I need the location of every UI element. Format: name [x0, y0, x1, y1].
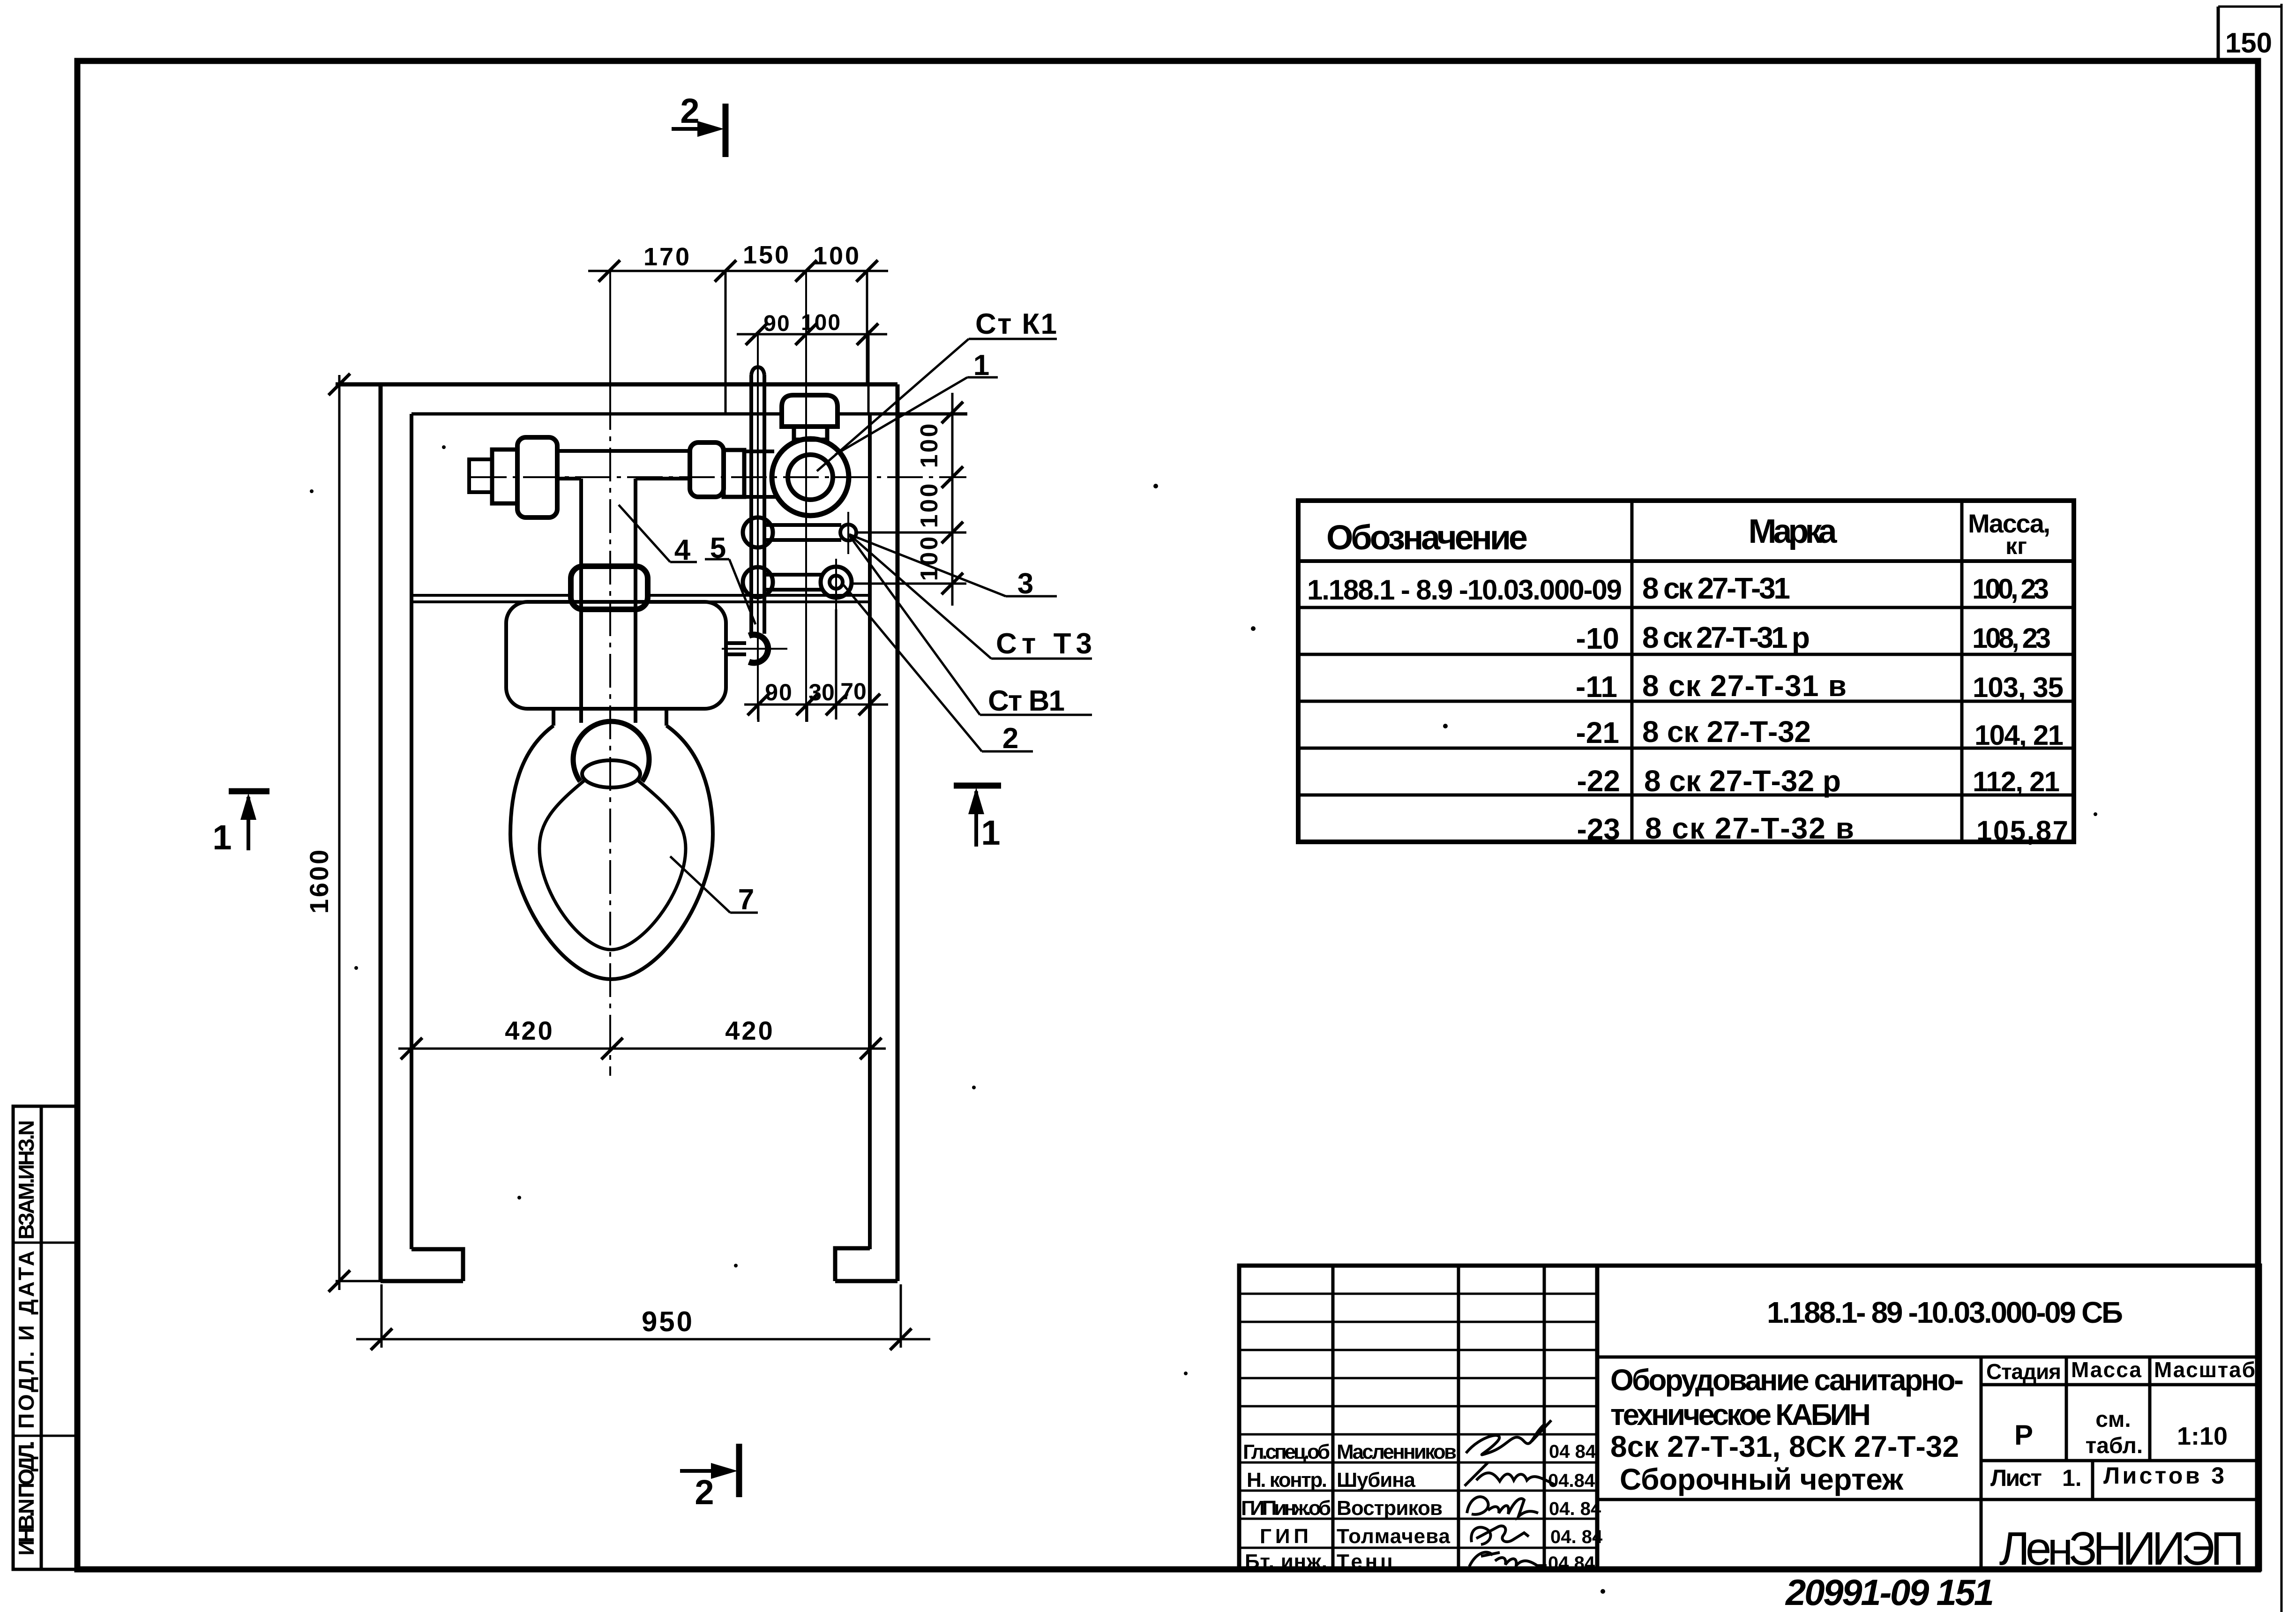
svg-text:8 ск 27-Т-31 в: 8 ск 27-Т-31 в: [1642, 669, 1848, 703]
svg-text:Обозначение: Обозначение: [1326, 518, 1528, 557]
left margin strip table: [13, 1106, 77, 1569]
svg-text:8ск 27-Т-31, 8СК 27-Т-32: 8ск 27-Т-31, 8СК 27-Т-32: [1610, 1430, 1959, 1463]
svg-text:70: 70: [840, 678, 867, 705]
svg-text:90: 90: [765, 679, 793, 705]
svg-text:Толмачева: Толмачева: [1337, 1525, 1451, 1548]
pipe coupling B: [517, 437, 557, 517]
stub pipe T3 end: [840, 525, 856, 540]
svg-text:100: 100: [916, 422, 943, 468]
label 3: [849, 534, 1057, 600]
svg-text:Гл.спец.об: Гл.спец.об: [1243, 1440, 1330, 1463]
svg-text:-21: -21: [1576, 716, 1620, 750]
tank inlet fitting: [749, 635, 768, 663]
cabin outer wall top: [336, 382, 897, 387]
label 4: [619, 505, 697, 566]
dim line 1600: [329, 374, 384, 1292]
title block right part: [1597, 1266, 2260, 1569]
svg-text:ПОДЛ. И ДАТА: ПОДЛ. И ДАТА: [14, 1251, 38, 1429]
svg-text:ГИП: ГИП: [1260, 1525, 1309, 1548]
svg-text:Масштаб: Масштаб: [2154, 1357, 2255, 1382]
stub pipe T3: [764, 525, 841, 540]
svg-text:8 ск 27-Т-32 р: 8 ск 27-Т-32 р: [1644, 764, 1843, 798]
centerline riser axis: [757, 334, 759, 720]
svg-text:Тенц: Тенц: [1337, 1550, 1393, 1573]
svg-text:103, 35: 103, 35: [1973, 672, 2064, 703]
signature table: [1239, 1266, 1597, 1569]
svg-text:04.84: 04.84: [1548, 1470, 1595, 1491]
dim line 420/420: [398, 1038, 886, 1059]
svg-text:112, 21: 112, 21: [1973, 766, 2060, 797]
svg-text:950: 950: [642, 1306, 694, 1337]
svg-text:100: 100: [813, 242, 861, 270]
svg-text:105,87: 105,87: [1976, 815, 2068, 847]
svg-text:Шубина: Шубина: [1337, 1469, 1416, 1492]
cabin inner wall left: [410, 414, 413, 1249]
svg-text:Ст Т3: Ст Т3: [996, 628, 1092, 660]
label 2: [844, 585, 1033, 755]
svg-text:04.84: 04.84: [1548, 1553, 1595, 1574]
cabin inner wall right: [868, 414, 872, 1249]
label Ст К1: [817, 308, 1057, 471]
svg-text:Лист: Лист: [1990, 1465, 2042, 1491]
svg-text:Сборочный чертеж: Сборочный чертеж: [1620, 1462, 1904, 1496]
dim line vertical 100/100/100: [852, 393, 966, 606]
cabin outer wall left: [379, 384, 383, 1281]
shelf double line: [411, 595, 870, 602]
svg-text:8 ск 27-Т-31 р: 8 ск 27-Т-31 р: [1642, 621, 1812, 654]
pipe coupling C: [690, 442, 724, 497]
dim line 950: [356, 1284, 930, 1350]
bowl inlet bell: [573, 721, 649, 781]
svg-text:04. 84: 04. 84: [1550, 1527, 1603, 1547]
dim line 90/100: [737, 323, 887, 414]
label Ст Т3: [849, 534, 1092, 660]
valve K1 body: [772, 439, 849, 516]
svg-text:30: 30: [808, 679, 835, 705]
svg-text:-10: -10: [1576, 622, 1620, 655]
cabin left foot: [381, 1249, 463, 1281]
toilet bowl inner: [539, 780, 686, 950]
stub pipe B1: [764, 575, 821, 590]
section marker 2 top: [672, 91, 725, 157]
svg-text:2: 2: [1002, 722, 1018, 755]
pipe coupling A: [492, 450, 517, 503]
svg-text:Оборудование санитарно-: Оборудование санитарно-: [1610, 1363, 1964, 1397]
svg-text:100: 100: [916, 482, 943, 528]
centerline horizontal pipe axis: [471, 476, 966, 478]
dim line 170/150/100: [588, 260, 888, 414]
svg-text:Н. контр.: Н. контр.: [1247, 1469, 1327, 1492]
svg-text:170: 170: [643, 243, 691, 271]
svg-text:Бт. инж.: Бт. инж.: [1245, 1550, 1327, 1573]
riser pipe: [751, 367, 764, 634]
pipe stub left end: [469, 459, 492, 492]
label 7: [670, 856, 758, 916]
svg-text:Ст К1: Ст К1: [975, 308, 1057, 340]
stamp cells: [1986, 1357, 2255, 1491]
svg-text:техническое КАБИН: техническое КАБИН: [1610, 1398, 1871, 1432]
svg-text:7: 7: [738, 884, 754, 916]
stub pipe B1 end ring: [821, 567, 852, 598]
svg-text:1:10: 1:10: [2177, 1422, 2228, 1450]
svg-text:04 84: 04 84: [1549, 1441, 1596, 1462]
svg-text:Стадия: Стадия: [1986, 1359, 2061, 1384]
riser junction fitting 1: [743, 517, 773, 547]
cabin inner wall top: [411, 412, 780, 416]
scan specks: [310, 445, 2097, 1594]
label 5: [705, 532, 755, 624]
flush pipe collar: [571, 566, 648, 609]
svg-text:ГИПинж.об: ГИПинж.об: [1241, 1497, 1331, 1520]
cabin right foot: [835, 1248, 897, 1281]
svg-text:1: 1: [981, 813, 1000, 852]
title text: [1610, 1363, 1964, 1496]
svg-text:150: 150: [743, 241, 791, 269]
cabin outer wall right: [896, 384, 900, 1281]
svg-text:420: 420: [725, 1016, 774, 1045]
svg-text:Масленников: Масленников: [1337, 1440, 1457, 1463]
svg-text:1.188.1 - 8.9 -10.03.000-09: 1.188.1 - 8.9 -10.03.000-09: [1307, 574, 1622, 606]
svg-text:Востриков: Востриков: [1337, 1497, 1443, 1520]
svg-text:8 ск 27-Т-32: 8 ск 27-Т-32: [1642, 715, 1813, 749]
svg-text:1.188.1- 89 -10.03.000-09 СБ: 1.188.1- 89 -10.03.000-09 СБ: [1767, 1296, 2123, 1329]
svg-text:100: 100: [916, 535, 943, 581]
svg-text:1: 1: [212, 818, 232, 857]
flush tank: [506, 602, 726, 709]
svg-text:100: 100: [801, 310, 841, 335]
dim line 90/30/70: [744, 609, 888, 722]
svg-text:1600: 1600: [304, 848, 334, 914]
svg-text:100, 23: 100, 23: [1972, 573, 2049, 605]
svg-text:кг: кг: [2005, 533, 2027, 559]
signatures: [1465, 1420, 1555, 1567]
svg-text:табл.: табл.: [2086, 1433, 2143, 1458]
tank inlet stub: [726, 643, 746, 654]
label Ст В1: [849, 535, 1092, 717]
svg-text:104, 21: 104, 21: [1974, 720, 2064, 751]
toilet bowl outer: [510, 726, 713, 979]
section marker 2 bottom: [680, 1444, 739, 1512]
pipe coupling D: [724, 450, 744, 497]
flush pipe: [581, 479, 636, 723]
svg-text:420: 420: [505, 1016, 554, 1045]
valve cap: [782, 395, 838, 427]
bowl stubs: [553, 709, 666, 726]
svg-text:Ст В1: Ст В1: [988, 685, 1065, 717]
svg-text:1.: 1.: [2062, 1465, 2082, 1491]
svg-text:-22: -22: [1577, 764, 1621, 798]
svg-text:8 ск 27-Т-31: 8 ск 27-Т-31: [1642, 571, 1792, 605]
sheet number box 150 top right: [2218, 7, 2281, 61]
valve inlet: [744, 451, 776, 497]
svg-text:-23: -23: [1577, 812, 1621, 846]
horizontal pipe: [557, 451, 690, 479]
svg-text:-11: -11: [1576, 670, 1617, 704]
svg-text:см.: см.: [2095, 1407, 2131, 1432]
svg-text:Марка: Марка: [1749, 513, 1840, 550]
valve neck: [794, 427, 827, 440]
svg-text:150: 150: [2225, 27, 2272, 59]
svg-text:Р: Р: [2014, 1419, 2033, 1451]
svg-text:2: 2: [680, 91, 699, 130]
svg-text:90: 90: [763, 311, 790, 336]
svg-text:ВЗАМ.ИНЗ.N: ВЗАМ.ИНЗ.N: [14, 1120, 38, 1240]
label 1: [835, 349, 998, 455]
svg-text:8 ск 27-Т-32 в: 8 ск 27-Т-32 в: [1645, 811, 1856, 845]
centerline vertical axis: [609, 271, 611, 396]
section marker 1 right: [954, 786, 1001, 852]
svg-text:Масса: Масса: [2071, 1357, 2141, 1382]
svg-text:04. 84: 04. 84: [1549, 1499, 1601, 1519]
riser junction fitting 2: [743, 567, 773, 597]
svg-text:ЛенЗНИИЭП: ЛенЗНИИЭП: [1999, 1522, 2244, 1575]
svg-text:ИНВ.N ПОДЛ.: ИНВ.N ПОДЛ.: [14, 1441, 38, 1556]
centerline valve axis: [805, 271, 807, 722]
svg-text:20991-09 151: 20991-09 151: [1785, 1572, 1994, 1612]
section marker 1 left: [212, 791, 269, 857]
svg-text:108, 23: 108, 23: [1972, 622, 2051, 654]
